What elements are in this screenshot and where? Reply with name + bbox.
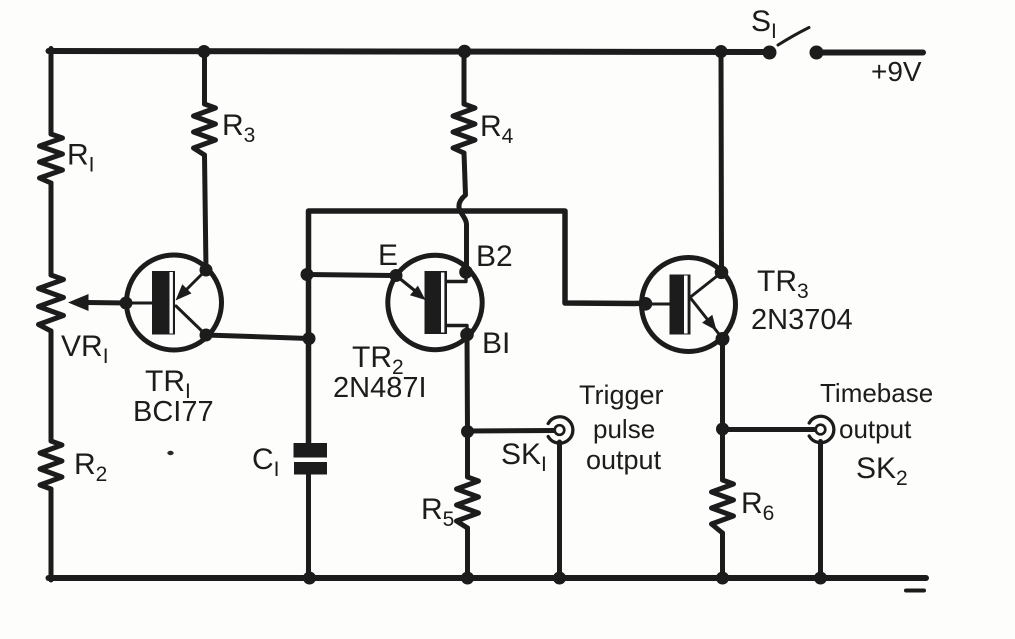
transistor TR2 (2N4871 unijunction)	[388, 255, 482, 349]
wire TR1 collector to C1 node	[206, 335, 309, 339]
junction R3 top	[198, 45, 211, 58]
svg-text:SI: SI	[751, 5, 777, 43]
socket SK2	[809, 416, 834, 442]
resistor R2	[40, 441, 62, 489]
svg-text:Trigger: Trigger	[579, 380, 664, 410]
wire left rail top segment	[49, 49, 54, 135]
svg-text:SK2: SK2	[856, 452, 908, 490]
junction R6 bottom	[716, 572, 729, 585]
junction R5 bottom	[461, 572, 474, 585]
VR1 wiper arrow	[68, 294, 89, 311]
svg-text:Timebase: Timebase	[820, 378, 933, 408]
svg-text:2N3704: 2N3704	[751, 304, 853, 336]
capacitor C1	[294, 443, 328, 458]
resistor R3	[194, 104, 216, 155]
svg-text:CI: CI	[252, 443, 280, 481]
wire C1 to bottom rail	[306, 473, 311, 580]
svg-text:BCI77: BCI77	[133, 396, 214, 428]
svg-text:RI: RI	[67, 139, 95, 177]
svg-text:B2: B2	[476, 240, 513, 273]
wire top rail right of switch S1 to +9V	[816, 50, 923, 56]
wire TR1 base to VR1 wiper	[87, 300, 127, 306]
battery negative mark	[906, 589, 924, 593]
wire R4 to TR2 B2 with crossover jog	[459, 153, 467, 271]
wire bottom 0V rail	[49, 575, 927, 581]
wire SK2 to bottom rail	[818, 442, 823, 581]
wire SK1 to bottom rail	[557, 442, 562, 580]
junction R4 top	[458, 45, 472, 59]
wire R6 to bottom rail	[720, 533, 725, 580]
switch S1 pole contact	[763, 46, 777, 60]
svg-text:TR3: TR3	[757, 265, 809, 303]
svg-text:R2: R2	[74, 448, 107, 486]
junction C1 bottom	[303, 572, 316, 585]
svg-text:BI: BI	[482, 327, 510, 360]
resistor R4	[453, 104, 475, 153]
svg-text:R5: R5	[421, 493, 454, 531]
svg-text:R3: R3	[222, 109, 255, 147]
wire R3 top	[202, 51, 207, 104]
wire SK1 tap to socket	[468, 428, 556, 434]
wire C1 node up, across and down to TR3 base	[309, 211, 647, 444]
svg-text:pulse: pulse	[593, 414, 655, 444]
junction TR1 collector at C1 line	[303, 332, 316, 345]
ink speck	[167, 451, 173, 455]
svg-text:output: output	[586, 445, 662, 475]
transistor TR1 (BC177)	[120, 255, 222, 350]
wire R1 to VR1	[49, 183, 54, 275]
socket SK1	[548, 417, 573, 443]
wire E node to TR2 emitter	[307, 275, 396, 276]
wire VR1 to R2	[49, 331, 54, 441]
junction SK1 ground	[553, 572, 566, 585]
resistor R6	[712, 480, 734, 533]
switch S1 lever	[778, 28, 809, 46]
resistor R1	[40, 134, 63, 183]
resistor R5	[457, 477, 479, 528]
junction timebase tap	[716, 423, 729, 436]
svg-text:E: E	[378, 239, 398, 272]
svg-text:+9V: +9V	[871, 56, 922, 87]
svg-text:SKI: SKI	[501, 438, 547, 476]
wire top supply rail	[49, 51, 771, 52]
transistor TR3 (2N3704)	[639, 258, 736, 352]
wire R3 to TR1 emitter	[205, 155, 207, 270]
wire TR2 B1 down to R5	[465, 335, 471, 478]
wire TR3 emitter down to R6	[720, 339, 725, 480]
svg-text:VRI: VRI	[61, 330, 109, 368]
svg-text:R6: R6	[741, 487, 774, 525]
switch S1 right contact	[810, 46, 824, 60]
wire R4 top	[462, 51, 467, 104]
wire R2 to bottom rail	[49, 489, 54, 580]
wire tap to SK2	[723, 427, 817, 432]
junction E node	[301, 268, 314, 281]
junction TR3 collector rail	[715, 45, 728, 58]
potentiometer VR1 track	[39, 275, 64, 331]
wire R5 to bottom rail	[465, 528, 470, 580]
svg-text:R4: R4	[480, 110, 514, 148]
svg-text:output: output	[839, 414, 912, 444]
junction SK1 tap	[461, 425, 474, 438]
junction SK2 ground	[814, 572, 827, 585]
svg-text:2N487I: 2N487I	[333, 372, 427, 404]
wire rail down to TR3 collector	[719, 51, 725, 274]
